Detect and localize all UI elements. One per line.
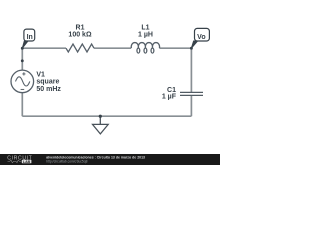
source V1 circle [11, 70, 34, 93]
footer logo LAB box [22, 160, 32, 164]
wire top-right horizontal [160, 47, 192, 49]
svg-text:square: square [36, 79, 59, 86]
resistor R1 zigzag [66, 44, 94, 52]
node Vo flag [191, 28, 209, 48]
capacitor C1 plates [180, 92, 203, 95]
svg-text:1 µH: 1 µH [138, 32, 153, 39]
junction dot at Vo corner [190, 47, 193, 50]
svg-text:V1: V1 [36, 71, 45, 78]
wire right vertical (Vo node to C1 top) [190, 48, 192, 92]
svg-text:http:∕∕circuitlab.com∕c∕3uc5q8: http:∕∕circuitlab.com∕c∕3uc5q8 [46, 159, 87, 163]
footer logo waveform [8, 160, 22, 163]
junction dot at In corner [21, 47, 24, 50]
footer bar [0, 154, 220, 166]
wire right vertical (C1 bottom to bottom rail) [190, 95, 192, 116]
ground [93, 116, 109, 134]
svg-text:L1: L1 [141, 25, 149, 32]
svg-text:100 kΩ: 100 kΩ [68, 32, 92, 39]
wire top-middle horizontal [94, 47, 131, 49]
svg-text:In: In [27, 34, 33, 41]
wire left vertical (In node to V1 top) [21, 48, 23, 70]
wire top-left horizontal [22, 47, 66, 49]
node In flag [22, 29, 34, 48]
svg-text:1 µF: 1 µF [162, 93, 177, 100]
junction dot at ground [99, 115, 102, 118]
svg-text:LAB: LAB [23, 160, 31, 164]
svg-text:Vo: Vo [197, 34, 205, 41]
svg-text:50 mHz: 50 mHz [36, 86, 61, 93]
svg-text:R1: R1 [76, 25, 85, 32]
wire bottom rail [22, 115, 191, 117]
source V1 plus sign [22, 72, 25, 75]
source V1 sine wave [16, 77, 30, 86]
wire left vertical (V1 bottom to bottom rail) [21, 93, 23, 117]
junction dot above V1 [21, 59, 24, 62]
source V1 minus sign [21, 88, 25, 90]
inductor L1 coil [131, 43, 159, 54]
